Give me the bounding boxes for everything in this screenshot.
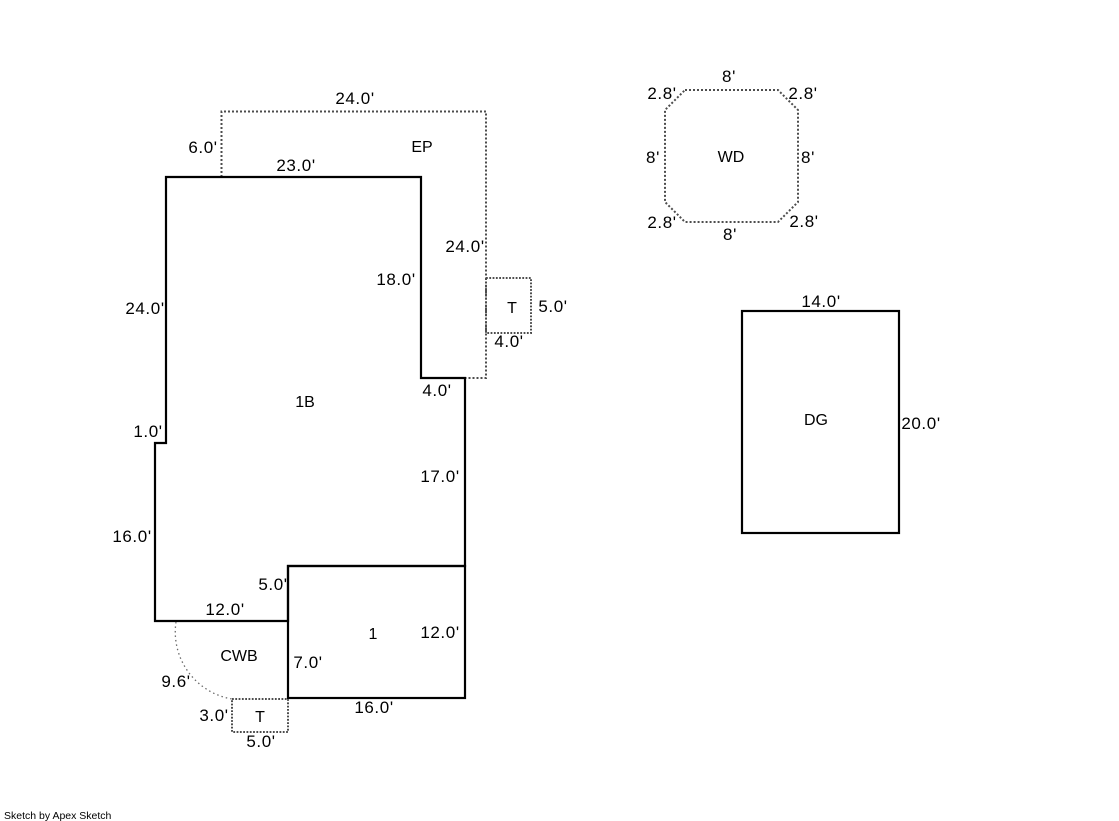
CWB curved wall dotted arc	[175, 622, 232, 699]
svg-text:23.0': 23.0'	[276, 156, 315, 175]
area T (right) dotted square	[486, 278, 531, 333]
svg-text:T: T	[507, 300, 517, 317]
svg-text:8': 8'	[722, 67, 736, 86]
svg-text:1.0': 1.0'	[133, 422, 162, 441]
svg-text:12.0': 12.0'	[420, 623, 459, 642]
svg-text:EP: EP	[411, 139, 432, 156]
svg-text:2.8': 2.8'	[789, 212, 818, 231]
area T (bottom) dotted square	[232, 699, 288, 732]
area WD dotted octagon	[665, 90, 798, 222]
svg-text:24.0': 24.0'	[445, 237, 484, 256]
svg-text:DG: DG	[804, 412, 828, 429]
svg-text:24.0': 24.0'	[125, 299, 164, 318]
area EP dotted outline	[222, 112, 487, 379]
svg-text:7.0': 7.0'	[293, 653, 322, 672]
svg-text:6.0': 6.0'	[188, 138, 217, 157]
svg-text:9.6': 9.6'	[161, 672, 190, 691]
area 1B outline	[155, 177, 465, 621]
svg-text:Sketch by Apex Sketch: Sketch by Apex Sketch	[4, 810, 112, 821]
svg-text:1: 1	[369, 626, 378, 643]
svg-text:24.0': 24.0'	[335, 89, 374, 108]
svg-text:8': 8'	[646, 148, 660, 167]
svg-text:WD: WD	[718, 149, 745, 166]
svg-text:5.0': 5.0'	[258, 575, 287, 594]
svg-text:16.0': 16.0'	[354, 698, 393, 717]
svg-text:2.8': 2.8'	[647, 84, 676, 103]
svg-text:17.0': 17.0'	[420, 467, 459, 486]
area 1 (room) outline	[288, 566, 465, 698]
svg-text:5.0': 5.0'	[538, 297, 567, 316]
svg-text:12.0': 12.0'	[205, 600, 244, 619]
svg-text:4.0': 4.0'	[494, 332, 523, 351]
svg-text:CWB: CWB	[220, 648, 257, 665]
svg-text:2.8': 2.8'	[647, 213, 676, 232]
area DG outline	[742, 311, 899, 533]
svg-text:T: T	[255, 709, 265, 726]
svg-text:8': 8'	[801, 148, 815, 167]
svg-text:20.0': 20.0'	[901, 414, 940, 433]
svg-text:8': 8'	[723, 225, 737, 244]
svg-text:2.8': 2.8'	[788, 84, 817, 103]
svg-text:18.0': 18.0'	[376, 270, 415, 289]
svg-text:1B: 1B	[295, 394, 315, 411]
svg-text:3.0': 3.0'	[199, 706, 228, 725]
svg-text:14.0': 14.0'	[801, 292, 840, 311]
svg-text:5.0': 5.0'	[246, 732, 275, 751]
svg-text:16.0': 16.0'	[112, 527, 151, 546]
svg-text:4.0': 4.0'	[422, 381, 451, 400]
